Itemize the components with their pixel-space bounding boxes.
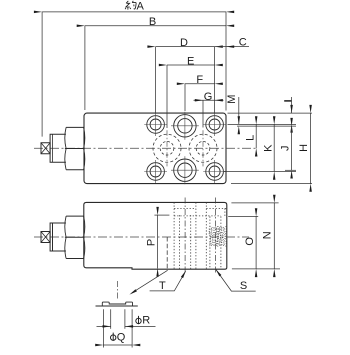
dim B xyxy=(85,25,226,27)
dim phiR xyxy=(97,325,156,327)
ext line A-left xyxy=(41,12,43,137)
port hole top-center xyxy=(171,112,199,140)
dim P xyxy=(157,215,159,268)
hidden bore T outer xyxy=(173,202,175,269)
dim O xyxy=(255,216,257,269)
seal ring detail xyxy=(96,302,138,306)
svg-text:R: R xyxy=(142,315,150,327)
dim A xyxy=(42,11,226,13)
hidden line x167 xyxy=(166,237,168,269)
ext line E-left xyxy=(166,65,168,128)
svg-text:E: E xyxy=(187,55,194,67)
ext line G-left xyxy=(202,100,204,127)
axis T port xyxy=(184,198,186,273)
dim K xyxy=(273,124,275,171)
dim phiQ xyxy=(103,344,132,346)
spring (hidden) xyxy=(209,227,226,247)
svg-text:B: B xyxy=(149,16,156,28)
svg-text:A: A xyxy=(137,1,145,13)
ext line body right xyxy=(225,12,227,111)
svg-text:H: H xyxy=(298,144,310,152)
hidden bore S outer xyxy=(205,202,207,269)
adjustment screw actuator (top view) xyxy=(41,127,85,169)
ext port row right xyxy=(237,125,296,127)
kanji yaku (approx.) xyxy=(125,1,136,10)
hidden horizontal 216 xyxy=(174,215,221,217)
svg-text:F: F xyxy=(196,74,203,86)
ext bolt row right xyxy=(228,123,297,125)
valve body (top view) xyxy=(84,113,226,184)
ext bottom xyxy=(232,268,280,270)
ext N top xyxy=(231,202,278,204)
ext port row bottom right xyxy=(285,169,296,171)
dim H xyxy=(310,113,312,184)
svg-text:J: J xyxy=(280,145,292,151)
dim C xyxy=(215,46,249,48)
svg-text:Q: Q xyxy=(117,332,126,344)
center line (top view) xyxy=(34,147,258,149)
bolt hole bottom-left xyxy=(144,160,167,183)
svg-text:G: G xyxy=(204,91,213,103)
dashed circle left xyxy=(153,130,181,166)
svg-text:L: L xyxy=(245,135,257,141)
axis S port xyxy=(215,198,217,273)
svg-text:K: K xyxy=(262,144,274,152)
hidden lines in front view xyxy=(167,198,226,273)
dim D xyxy=(156,46,215,48)
svg-text:T: T xyxy=(159,280,166,292)
hidden bore S inner xyxy=(209,216,211,269)
detail ext lines xyxy=(103,309,132,347)
adjustment screw actuator (front view) xyxy=(41,216,85,258)
ext body bottom right xyxy=(231,183,312,185)
dim M xyxy=(238,97,240,124)
bolt hole top-left xyxy=(144,113,167,136)
dim G xyxy=(194,99,224,101)
svg-text:O: O xyxy=(244,237,256,246)
valve body (front view) xyxy=(84,202,227,269)
svg-text:S: S xyxy=(240,280,247,292)
ext O top xyxy=(228,215,258,217)
svg-text:P: P xyxy=(145,239,157,246)
svg-text:D: D xyxy=(180,37,188,49)
bolt hole bottom-right xyxy=(203,160,226,183)
ext P top xyxy=(154,214,169,216)
ext bolt row bottom right xyxy=(224,171,296,173)
dim N xyxy=(273,203,275,269)
svg-text:C: C xyxy=(239,37,247,49)
dim I xyxy=(291,97,293,113)
dim F xyxy=(185,83,215,85)
dim E xyxy=(167,64,215,66)
hidden bore T inner xyxy=(179,215,181,269)
dashed circle right xyxy=(189,130,217,166)
hidden horizontal 208 xyxy=(174,207,227,209)
ext line B-left xyxy=(84,26,86,110)
ext line F-left xyxy=(184,84,186,111)
svg-text:N: N xyxy=(261,231,273,239)
ext top edge right xyxy=(228,112,313,114)
svg-text:M: M xyxy=(226,95,238,104)
center line (front view) xyxy=(34,236,249,238)
bolt hole top-right xyxy=(203,113,226,136)
leader to detail xyxy=(132,270,168,293)
port hole bottom-center xyxy=(171,156,199,184)
detail center line xyxy=(116,281,118,300)
dim L xyxy=(255,124,257,148)
ext line right col xyxy=(214,47,216,113)
ext line D-left xyxy=(155,47,157,113)
dim J xyxy=(291,126,293,170)
